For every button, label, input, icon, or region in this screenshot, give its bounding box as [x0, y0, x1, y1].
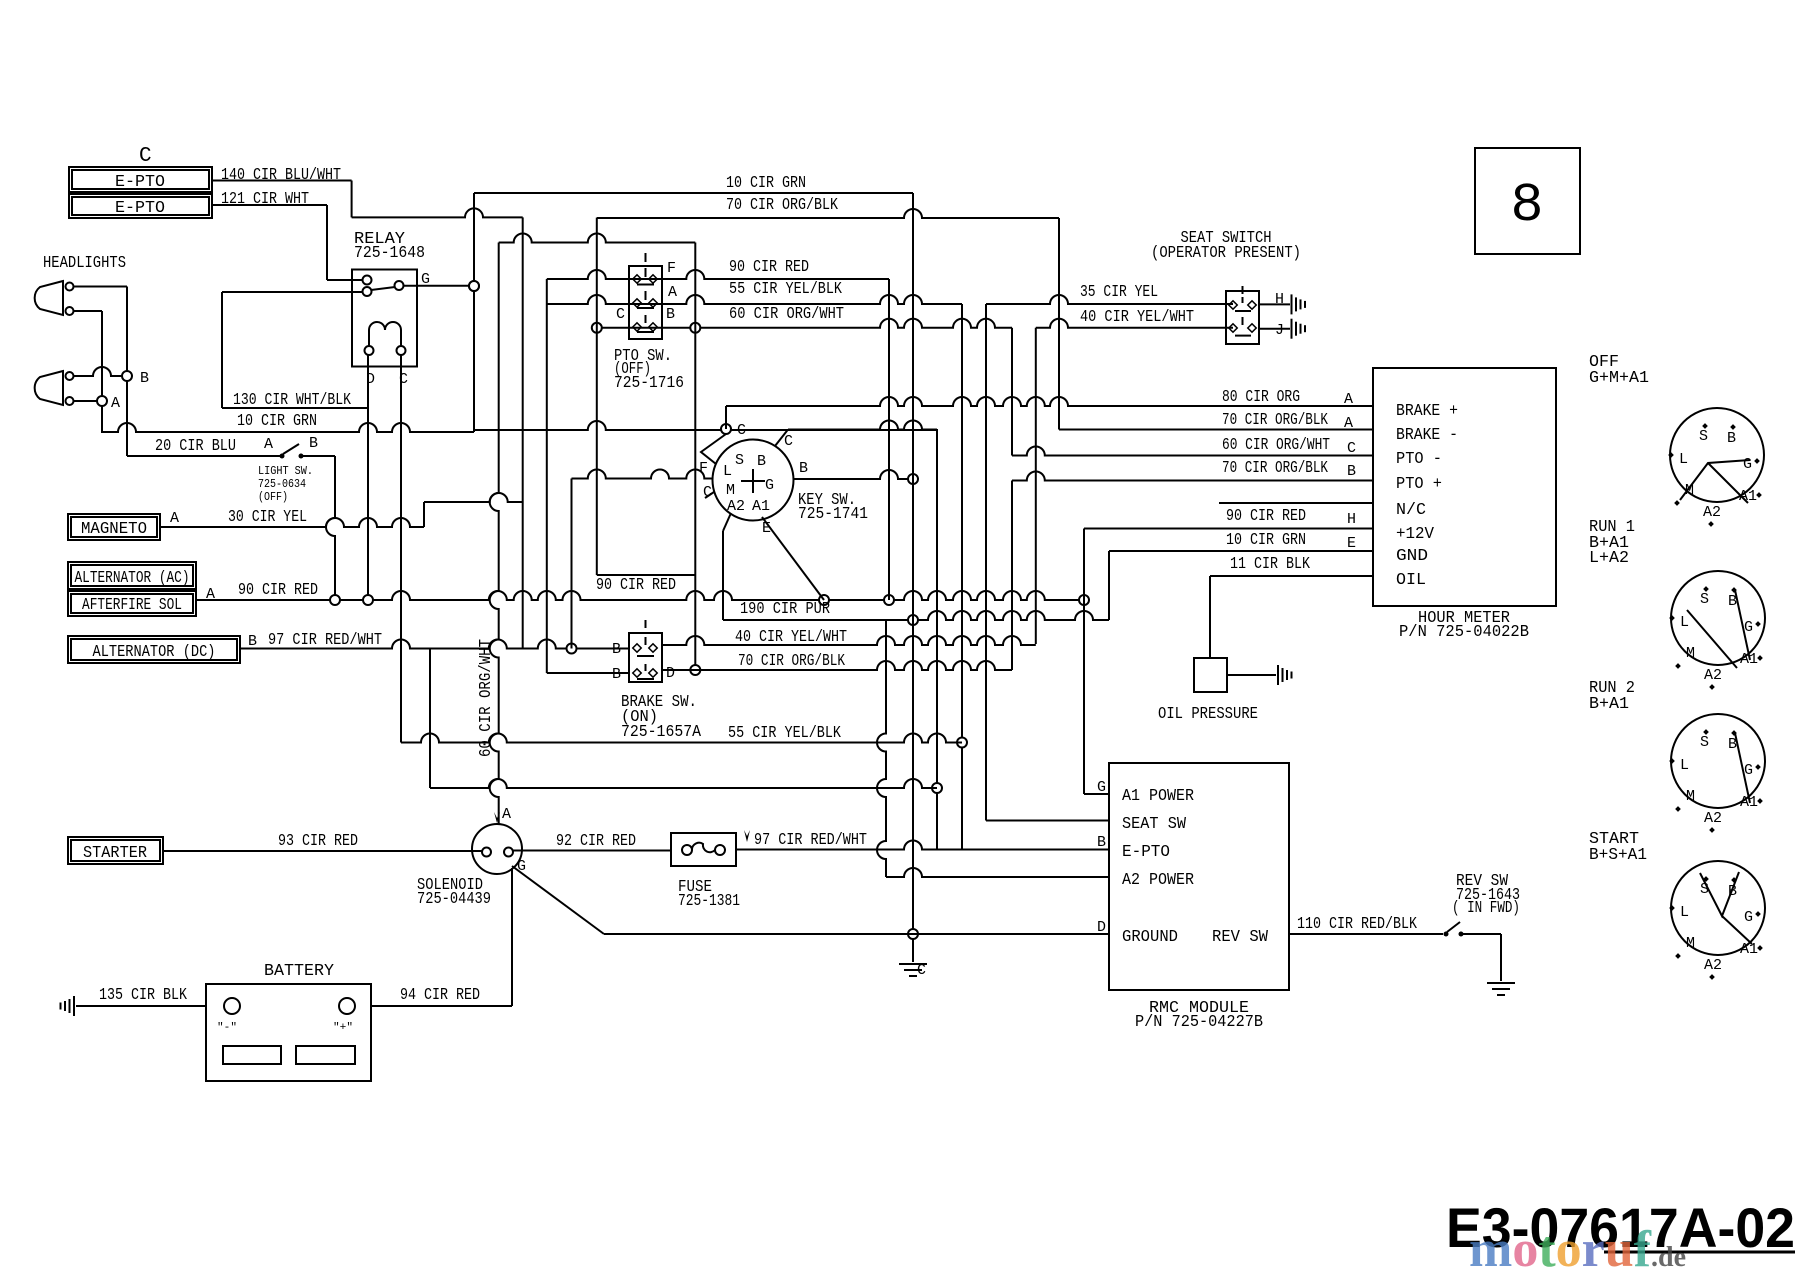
svg-text:M: M: [1686, 645, 1695, 662]
vertical 70blk x937: [936, 429, 938, 849]
svg-text:E-PTO: E-PTO: [115, 199, 165, 218]
vertical 55 net x546.8: [546, 279, 548, 673]
node B headlights: [122, 371, 132, 381]
svg-text:H: H: [1347, 511, 1356, 528]
vertical seat sw x986: [985, 304, 987, 821]
svg-text:55 CIR YEL/BLK: 55 CIR YEL/BLK: [728, 724, 842, 743]
svg-text:S: S: [735, 452, 744, 469]
vertical ground x913: [912, 193, 914, 934]
svg-text:725-1648: 725-1648: [354, 244, 425, 263]
svg-text:G: G: [1743, 456, 1752, 473]
wire PTO C-B / seat J row y327.8 left segment: [597, 319, 1012, 328]
svg-text:94 CIR RED: 94 CIR RED: [400, 986, 480, 1005]
svg-text:E-PTO: E-PTO: [1122, 843, 1170, 862]
svg-text:A2: A2: [1704, 957, 1722, 974]
svg-text:C: C: [703, 484, 712, 501]
wire 130 CIR WHT/BLK loop: [222, 291, 362, 293]
wire solenoid to battery vertical: [511, 868, 513, 1006]
solenoid A pointer: [494, 812, 500, 823]
key switch center cross: [741, 480, 765, 482]
key switch circle 725-1741: [713, 440, 794, 521]
ALTERNATOR (AC) box: [68, 562, 196, 589]
relay box 725-1648: [352, 270, 417, 367]
key F stub: [701, 434, 726, 464]
svg-text:E-PTO: E-PTO: [115, 173, 165, 192]
svg-text:L: L: [1680, 904, 1689, 921]
svg-text:"+": "+": [333, 1022, 353, 1034]
wire hour E row y551: [1109, 550, 1373, 552]
vertical key M x571.5: [571, 479, 573, 649]
svg-text:(OPERATOR PRESENT): (OPERATOR PRESENT): [1151, 244, 1301, 263]
svg-text:121 CIR WHT: 121 CIR WHT: [221, 190, 309, 209]
svg-text:B: B: [1097, 834, 1106, 851]
brake switch box 725-1657A: [629, 633, 662, 682]
wire brake top row right segment y645: [662, 636, 1036, 645]
relay C vertical to 55 CIR YEL/BLK: [400, 355, 402, 743]
svg-text:A1: A1: [1740, 941, 1758, 958]
wire 97 CIR RED/WHT run to brake switch: [240, 640, 629, 649]
svg-text:BATTERY: BATTERY: [264, 962, 334, 981]
svg-text:SEAT SW: SEAT SW: [1122, 815, 1187, 834]
svg-text:A1: A1: [1740, 651, 1758, 668]
wire 10 CIR GRN top run: [474, 192, 913, 194]
svg-text:B: B: [1728, 736, 1737, 753]
svg-text:90 CIR RED: 90 CIR RED: [238, 581, 318, 600]
svg-text:725-1716: 725-1716: [614, 374, 684, 393]
svg-text:10 CIR GRN: 10 CIR GRN: [237, 412, 317, 431]
svg-text:B: B: [799, 460, 808, 477]
svg-text:M: M: [1686, 935, 1695, 952]
vertical 90red x889: [888, 279, 890, 600]
wire solenoid to ground diagonal: [512, 866, 604, 934]
vertical A2 power x886: [877, 620, 886, 877]
svg-text:ALTERNATOR (DC): ALTERNATOR (DC): [93, 643, 216, 662]
svg-text:B: B: [666, 306, 675, 323]
wire 190 CIR PUR / 10 GRN mid row y620: [723, 611, 1109, 620]
svg-text:A2 POWER: A2 POWER: [1122, 871, 1194, 890]
key A2 stub: [723, 513, 731, 531]
svg-text:PTO -: PTO -: [1396, 450, 1442, 469]
svg-text:G: G: [1744, 762, 1753, 779]
svg-text:MAGNETO: MAGNETO: [81, 520, 147, 539]
svg-text:L: L: [1680, 614, 1689, 631]
light switch 725-0634: [280, 454, 285, 459]
svg-text:190 CIR PUR: 190 CIR PUR: [740, 600, 830, 619]
wire hour B row y480.5: [1012, 472, 1373, 481]
svg-text:HEADLIGHTS: HEADLIGHTS: [43, 254, 126, 273]
svg-text:90 CIR RED: 90 CIR RED: [596, 576, 676, 595]
wire key C row y429.5: [788, 421, 937, 430]
svg-text:STARTER: STARTER: [83, 844, 147, 863]
wire 20 CIR BLU run: [127, 455, 280, 457]
PTO switch pins: [633, 275, 641, 283]
svg-text:S: S: [1699, 428, 1708, 445]
svg-text:A: A: [170, 510, 179, 527]
svg-text:L+A2: L+A2: [1589, 549, 1629, 568]
svg-text:C: C: [616, 306, 625, 323]
svg-text:55 CIR YEL/BLK: 55 CIR YEL/BLK: [729, 280, 843, 299]
svg-text:A2: A2: [1704, 810, 1722, 827]
vertical 60wht x695.3: [694, 243, 696, 671]
svg-text:P/N 725-04227B: P/N 725-04227B: [1135, 1013, 1263, 1032]
svg-text:B: B: [1728, 883, 1737, 900]
wire 70 CIR ORG/BLK top run: [597, 209, 1059, 218]
svg-text:97 CIR RED/WHT: 97 CIR RED/WHT: [754, 831, 867, 850]
wire rev switch to ground: [1463, 933, 1501, 935]
svg-text:A1: A1: [1739, 488, 1757, 505]
wire 55 CIR YEL/BLK row y742.5: [401, 734, 962, 743]
svg-text:10 CIR GRN: 10 CIR GRN: [726, 174, 806, 193]
MAGNETO box: [68, 514, 160, 540]
vertical 10grn x1109: [1108, 551, 1110, 620]
svg-text:G: G: [765, 477, 774, 494]
svg-text:60 CIR ORG/WHT: 60 CIR ORG/WHT: [729, 305, 844, 324]
oil pressure ground: [1227, 674, 1276, 676]
svg-text:B: B: [612, 666, 621, 683]
wire 135 CIR BLK row: [76, 1005, 206, 1007]
svg-text:B+A1: B+A1: [1589, 695, 1629, 714]
relay D vertical to 90 CIR RED node: [367, 355, 369, 600]
svg-text:M: M: [1686, 788, 1695, 805]
svg-text:70 CIR ORG/BLK: 70 CIR ORG/BLK: [1222, 411, 1329, 430]
svg-text:A2: A2: [1703, 504, 1721, 521]
svg-text:135 CIR BLK: 135 CIR BLK: [99, 986, 188, 1005]
brake switch pins: [633, 644, 641, 652]
svg-text:S: S: [1700, 734, 1709, 751]
key node C top: [721, 424, 731, 434]
wire 93 CIR RED row: [163, 850, 486, 852]
svg-text:LIGHT SW.: LIGHT SW.: [258, 464, 313, 478]
svg-text:110 CIR RED/BLK: 110 CIR RED/BLK: [1297, 915, 1418, 934]
svg-text:B: B: [1727, 430, 1736, 447]
svg-text:PTO +: PTO +: [1396, 475, 1442, 494]
svg-text:AFTERFIRE SOL: AFTERFIRE SOL: [82, 596, 182, 615]
svg-text:30 CIR YEL: 30 CIR YEL: [228, 508, 307, 527]
svg-text:140 CIR BLU/WHT: 140 CIR BLU/WHT: [221, 166, 341, 185]
wire brake D row y670: [662, 661, 1012, 670]
svg-text:( IN FWD): ( IN FWD): [1452, 899, 1520, 918]
RMC MODULE box P/N 725-04227B: [1109, 763, 1289, 990]
vertical 40yel x1035.8: [1035, 328, 1037, 644]
svg-text:A2: A2: [1704, 667, 1722, 684]
svg-text:725-1381: 725-1381: [678, 892, 740, 911]
wire SEAT SW: [986, 820, 1109, 822]
svg-text:+12V: +12V: [1396, 525, 1435, 544]
svg-text:A: A: [668, 284, 677, 301]
svg-text:90 CIR RED: 90 CIR RED: [729, 258, 809, 277]
wire 121 CIR WHT from E-PTO to relay: [212, 204, 327, 206]
STARTER box: [68, 837, 163, 864]
svg-text:C: C: [737, 422, 746, 439]
vertical 90red x1084: [1083, 529, 1085, 795]
wire A1 POWER: [1084, 793, 1109, 795]
relay contact pins: [363, 276, 372, 285]
svg-text:B: B: [757, 453, 766, 470]
svg-text:35 CIR YEL: 35 CIR YEL: [1080, 283, 1158, 302]
svg-text:P/N 725-04022B: P/N 725-04022B: [1399, 623, 1529, 642]
wire 97 red/wht row y788: [430, 779, 937, 788]
svg-text:OIL: OIL: [1396, 571, 1426, 590]
svg-text:A1: A1: [1740, 794, 1758, 811]
wire seat J row right segment: [1036, 319, 1233, 328]
svg-text:725-04439: 725-04439: [417, 890, 491, 909]
wire seat H row right segment: [986, 295, 1233, 304]
svg-text:A: A: [1344, 415, 1353, 432]
relay G output wire: [404, 285, 470, 287]
svg-text:11 CIR BLK: 11 CIR BLK: [1230, 555, 1311, 574]
seat switch box: [1226, 291, 1259, 344]
svg-text:92 CIR RED: 92 CIR RED: [556, 832, 636, 851]
svg-text:C: C: [784, 433, 793, 450]
svg-text:725-1741: 725-1741: [798, 505, 868, 524]
wire to key switch C stub vertical: [474, 421, 937, 430]
svg-text:G: G: [1744, 909, 1753, 926]
wire 80 CIR ORG row y406: [726, 397, 1373, 406]
wire hour N/C row: [1219, 502, 1373, 504]
PTO switch box 725-1716: [629, 266, 662, 339]
wire 140 CIR BLU/WHT from E-PTO: [212, 180, 352, 182]
wire 92 CIR RED row: [513, 850, 671, 852]
svg-text:ALTERNATOR (AC): ALTERNATOR (AC): [75, 569, 190, 588]
vertical 60 CIR ORG/WHT with rotated label: [490, 243, 499, 825]
vertical 70blk x596.8: [596, 218, 598, 575]
svg-text:J: J: [1275, 322, 1284, 339]
svg-text:"-": "-": [217, 1022, 237, 1034]
wire A2 POWER: [886, 868, 1109, 877]
svg-text:A2: A2: [727, 498, 745, 515]
headlight lamp bottom: [35, 371, 63, 405]
OIL PRESSURE box: [1194, 658, 1227, 692]
svg-text:L: L: [723, 463, 732, 480]
headlight lamp top: [35, 281, 63, 315]
wire 10 CIR GRN lower run: [102, 423, 474, 432]
svg-text:60 CIR ORG/WHT: 60 CIR ORG/WHT: [1222, 436, 1330, 455]
rev switch contacts: [1444, 932, 1449, 937]
svg-text:(OFF): (OFF): [258, 490, 288, 504]
wire 60 CIR ORG/WHT upper run y242: [499, 234, 696, 243]
vertical 97 net to row788: [429, 649, 431, 789]
svg-text:70 CIR ORG/BLK: 70 CIR ORG/BLK: [726, 196, 839, 215]
seat switch pins: [1229, 301, 1237, 309]
svg-text:F: F: [667, 260, 676, 277]
wire hour C row y455.5: [1012, 447, 1373, 456]
svg-text:97 CIR RED/WHT: 97 CIR RED/WHT: [268, 631, 382, 650]
wire 94 CIR RED row: [371, 1005, 512, 1007]
E-PTO box 1: [69, 167, 212, 192]
E-PTO box 2: [69, 194, 212, 218]
PTO switch actuator marks: [645, 253, 647, 262]
wire run y217 from 140 net: [352, 208, 523, 217]
svg-text:S: S: [1700, 881, 1709, 898]
svg-text:D: D: [666, 665, 675, 682]
svg-text:GND: GND: [1396, 547, 1428, 566]
svg-text:L: L: [1680, 757, 1689, 774]
wire 90 CIR RED stub y575: [597, 574, 696, 576]
HOUR METER box: [1373, 368, 1556, 606]
key position circle START: [1671, 861, 1765, 955]
ALTERNATOR (DC) box: [68, 636, 240, 663]
vertical from magneto net y502 to row 648: [522, 217, 524, 648]
svg-text:C: C: [1347, 440, 1356, 457]
wire PTO A / seat H row y304 left segment: [547, 295, 962, 304]
svg-text:E: E: [1347, 535, 1356, 552]
node A headlights: [97, 396, 107, 406]
svg-text:A1 POWER: A1 POWER: [1122, 787, 1194, 806]
AFTERFIRE SOL box: [68, 591, 196, 616]
key M wire: [572, 470, 714, 479]
svg-text:B: B: [309, 435, 318, 452]
wire 11 CIR BLK row y576: [1210, 575, 1373, 577]
svg-text:20 CIR BLU: 20 CIR BLU: [155, 437, 236, 456]
wire PTO F row y279: [547, 270, 889, 279]
vertical 70blk x1012 lower: [1011, 481, 1013, 671]
svg-text:G+M+A1: G+M+A1: [1589, 369, 1649, 388]
svg-text:B: B: [612, 641, 621, 658]
battery cells: [223, 1046, 281, 1064]
svg-text:70 CIR ORG/BLK: 70 CIR ORG/BLK: [738, 652, 846, 671]
battery terminals: [224, 998, 240, 1014]
solenoid circle 725-04439: [472, 824, 522, 874]
svg-text:10 CIR GRN: 10 CIR GRN: [1226, 531, 1306, 550]
svg-text:70 CIR ORG/BLK: 70 CIR ORG/BLK: [1222, 459, 1329, 478]
wire 30 CIR YEL run: [160, 518, 424, 527]
svg-text:REV SW: REV SW: [1212, 928, 1269, 947]
svg-text:A: A: [1344, 391, 1353, 408]
svg-text:B: B: [1728, 593, 1737, 610]
svg-text:H: H: [1275, 291, 1284, 308]
svg-text:G: G: [421, 271, 430, 288]
wire brake bottom-left row: [547, 672, 629, 674]
svg-text:GROUND: GROUND: [1122, 928, 1178, 947]
page number box 8: [1475, 148, 1580, 254]
svg-text:B: B: [1347, 463, 1356, 480]
svg-text:N/C: N/C: [1396, 501, 1426, 520]
wire REV SW row: [1289, 933, 1443, 935]
key C stub top right: [775, 430, 788, 447]
wire 90 CIR RED main run: [196, 591, 1084, 600]
vertical x962: [961, 304, 963, 849]
wire GROUND row: [604, 933, 1109, 935]
svg-text:B+S+A1: B+S+A1: [1589, 846, 1647, 865]
svg-text:M: M: [1685, 482, 1694, 499]
svg-text:A: A: [264, 436, 273, 453]
key G wire: [793, 470, 913, 479]
FUSE box 725-1381: [671, 833, 736, 866]
wire hour H row y528.5: [1084, 528, 1373, 530]
svg-text:40 CIR YEL/WHT: 40 CIR YEL/WHT: [1080, 308, 1194, 327]
svg-text:L: L: [1679, 451, 1688, 468]
relay switch arm: [371, 287, 395, 290]
svg-text:S: S: [1700, 591, 1709, 608]
svg-text:C: C: [139, 145, 152, 168]
vertical 70blk x1059: [1058, 218, 1060, 430]
svg-text:BRAKE +: BRAKE +: [1396, 402, 1458, 421]
svg-text:8: 8: [1510, 174, 1543, 237]
svg-text:725-0634: 725-0634: [258, 477, 306, 491]
svg-text:90 CIR RED: 90 CIR RED: [1226, 507, 1306, 526]
vertical 60wht x1012 upper: [1011, 328, 1013, 456]
svg-text:A1: A1: [752, 498, 770, 515]
svg-text:OIL PRESSURE: OIL PRESSURE: [1158, 705, 1258, 724]
svg-text:725-1657A: 725-1657A: [621, 723, 702, 742]
svg-text:93 CIR RED: 93 CIR RED: [278, 832, 358, 851]
svg-text:BRAKE -: BRAKE -: [1396, 426, 1458, 445]
svg-text:B: B: [140, 370, 149, 387]
battery negative ground: [73, 996, 75, 1016]
svg-text:80 CIR ORG: 80 CIR ORG: [1222, 388, 1300, 407]
relay coil: [369, 322, 401, 330]
key position circle RUN 2: [1671, 714, 1765, 808]
svg-text:M: M: [726, 482, 735, 499]
svg-text:A: A: [502, 806, 511, 823]
svg-text:G: G: [1744, 619, 1753, 636]
svg-text:B: B: [248, 633, 257, 650]
svg-text:60 CIR ORG/WHT: 60 CIR ORG/WHT: [477, 639, 496, 757]
key position circle OFF: [1670, 408, 1764, 502]
svg-text:A: A: [111, 395, 120, 412]
key position circle RUN 1: [1671, 571, 1765, 665]
headlight wires to nodes: [74, 286, 128, 288]
RMC ground stub C: [912, 939, 914, 962]
battery box: [206, 984, 371, 1081]
wire E-PTO to RMC: [736, 841, 1109, 850]
wire hour A2 row y429.5: [1059, 429, 1373, 431]
